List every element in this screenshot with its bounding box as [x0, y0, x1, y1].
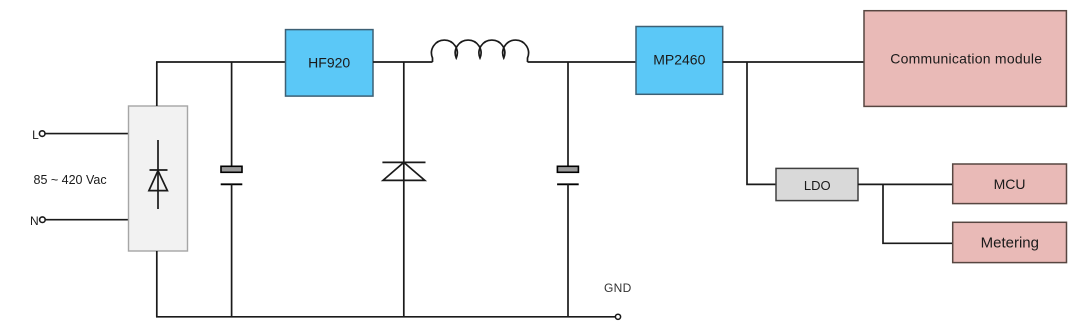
MCU box: [953, 164, 1067, 204]
Metering box: [953, 222, 1067, 262]
wire inductor to MP2460: [528, 61, 637, 63]
svg-text:Metering: Metering: [981, 235, 1039, 252]
svg-text:MP2460: MP2460: [653, 52, 705, 68]
wire MP2460 to Communication module: [723, 61, 864, 63]
svg-text:HF920: HF920: [308, 55, 350, 71]
inductor L1: [431, 40, 528, 62]
svg-text:GND: GND: [604, 281, 632, 295]
wire LDO to MCU: [858, 183, 953, 185]
svg-text:MCU: MCU: [994, 176, 1026, 192]
bridge rectifier box: [129, 106, 188, 251]
wire branch down to LDO: [747, 62, 776, 184]
top rail wire rectifier to HF920: [156, 61, 286, 63]
svg-text:85 ~ 420 Vac: 85 ~ 420 Vac: [34, 173, 107, 187]
wire branch down to Metering: [883, 184, 953, 243]
GND terminal: [615, 314, 620, 319]
svg-text:LDO: LDO: [804, 178, 831, 193]
wire rectifier bottom to ground rail: [156, 251, 158, 317]
wire rectifier top to rail: [156, 62, 158, 106]
svg-text:Communication module: Communication module: [890, 51, 1042, 67]
terminal L: [32, 128, 45, 142]
wire N to rectifier: [46, 219, 129, 221]
Communication module box: [864, 11, 1066, 107]
MP2460 box: [636, 27, 723, 95]
rectifier diode D1: [149, 140, 168, 209]
LDO box: [776, 168, 858, 200]
freewheel diode D2: [382, 62, 425, 317]
wire HF920 to inductor: [373, 61, 433, 63]
svg-text:L: L: [32, 128, 39, 142]
svg-text:N: N: [30, 214, 39, 228]
HF920 box: [286, 30, 374, 97]
terminal N: [30, 214, 45, 228]
capacitor C2: [557, 62, 579, 317]
wire L to rectifier: [46, 133, 129, 135]
ground rail: [156, 316, 615, 318]
capacitor C1: [221, 62, 243, 317]
